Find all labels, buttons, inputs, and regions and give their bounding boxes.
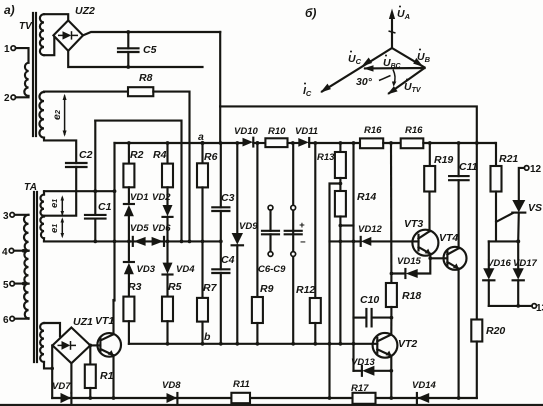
wire VT3 collector to R19 xyxy=(428,192,430,232)
node UZ1 right / VT1 base xyxy=(88,344,92,348)
svg-text:е2: е2 xyxy=(51,109,63,120)
svg-text:R11: R11 xyxy=(233,379,250,390)
node R12 bottom xyxy=(313,342,317,346)
wire VT3 emitter to VT4 base xyxy=(430,254,447,258)
node left vertical at e1 wire xyxy=(113,189,117,193)
TA primary winding section 5-6 xyxy=(24,284,28,319)
wire VD16-VS horizontal xyxy=(489,240,518,242)
wire e2 bottom to C2 xyxy=(44,138,76,163)
svg-text:R5: R5 xyxy=(168,281,182,293)
svg-text:С5: С5 xyxy=(143,44,157,56)
node R10 left xyxy=(256,141,260,145)
node x329.5 bottom xyxy=(328,396,332,400)
svg-text:R2: R2 xyxy=(130,149,144,161)
TA core xyxy=(33,192,35,362)
svg-text:VD15: VD15 xyxy=(397,256,421,267)
node VD9 bottom xyxy=(235,342,239,346)
svg-text:VТ2: VТ2 xyxy=(398,338,417,350)
TV upper secondary winding xyxy=(40,14,44,55)
wire UZ1 bottom corner down xyxy=(70,363,72,393)
e2 dimension arrow xyxy=(64,96,66,136)
node R13 top xyxy=(339,141,343,145)
svg-text:R16: R16 xyxy=(364,125,382,136)
node R18 chain top xyxy=(389,141,393,145)
node VD12 wire x353.5 xyxy=(352,240,356,244)
node R4 top xyxy=(166,141,170,145)
svg-text:2: 2 xyxy=(4,93,10,104)
svg-text:VТ3: VТ3 xyxy=(404,218,423,230)
svg-text:R7: R7 xyxy=(203,282,218,294)
svg-text:R8: R8 xyxy=(139,72,153,84)
node C7 bottom xyxy=(291,342,295,346)
vector UA xyxy=(391,14,393,48)
wire VT1 collector up long left vertical xyxy=(112,300,114,334)
winding e1 lower xyxy=(40,217,44,239)
svg-text:VD13: VD13 xyxy=(351,357,375,368)
svg-text:30°: 30° xyxy=(356,76,373,88)
wire VT2 emitter down xyxy=(390,356,392,398)
node x340.4 bus b xyxy=(339,342,343,346)
svg-text:R10: R10 xyxy=(268,126,286,137)
node R18 bottom / C10 / VT2 collector xyxy=(390,316,394,320)
node VT2 emitter bottom xyxy=(389,396,393,400)
svg-text:VD1: VD1 xyxy=(130,192,148,203)
node left vertical on VD5 bus xyxy=(113,240,117,244)
node C4 bottom xyxy=(219,342,223,346)
svg-text:б): б) xyxy=(305,6,316,20)
svg-text:VТ4: VТ4 xyxy=(439,232,458,244)
wire long horizontal y106 to right side xyxy=(220,106,477,143)
node x181.5 on VD5 bus xyxy=(180,240,184,244)
node x329.5 bus b xyxy=(328,342,332,346)
svg-text:VТ1: VТ1 xyxy=(95,315,114,327)
chain R9: from bus a down xyxy=(256,141,260,145)
wire UZ1 to VT1 base xyxy=(90,344,100,346)
svg-text:VD3: VD3 xyxy=(137,264,156,275)
wire x353.5 vertical bus a to VD13 wire xyxy=(352,143,354,371)
svg-text:VD11: VD11 xyxy=(295,126,318,137)
wire winding bottom to UZ1 left leg xyxy=(44,362,52,368)
node VD1 chain on VD5 bus xyxy=(127,240,131,244)
chain with capacitor C7 (right of group) xyxy=(292,143,294,344)
svg-text:а): а) xyxy=(4,3,15,17)
svg-text:VD6: VD6 xyxy=(152,223,171,234)
wire UZ1 left corner down to bottom wire xyxy=(51,345,53,398)
svg-text:−: − xyxy=(300,237,306,248)
node x353.5 bus b xyxy=(352,342,356,346)
svg-text:R6: R6 xyxy=(204,151,218,163)
node C3-C4 on VD5 bus xyxy=(219,240,223,244)
angle 30 arc xyxy=(393,70,395,84)
svg-text:1: 1 xyxy=(4,44,10,55)
winding e2 xyxy=(39,92,44,138)
svg-text:R1: R1 xyxy=(100,370,114,382)
node x353.5 top xyxy=(352,141,356,145)
node R10 right xyxy=(291,141,295,145)
node VT1 emitter bottom xyxy=(112,396,116,400)
node R19 top xyxy=(428,141,432,145)
TA primary winding section 4-5 xyxy=(24,251,28,284)
node VD12 wire x340 xyxy=(339,240,343,244)
svg-text:R3: R3 xyxy=(128,281,142,293)
node C3 top xyxy=(219,141,223,145)
wire e2 top to R8 xyxy=(44,91,128,93)
svg-text:R12: R12 xyxy=(296,284,315,296)
svg-text:4: 4 xyxy=(2,247,8,258)
svg-text:VD4: VD4 xyxy=(176,264,195,275)
phasor diagram xyxy=(303,6,431,99)
svg-text:UZ1: UZ1 xyxy=(73,316,93,328)
wire VD12 line xyxy=(330,240,361,242)
chain R20 xyxy=(476,143,478,320)
wire VD5 bus xyxy=(44,240,221,242)
node C1 bottom xyxy=(93,240,97,244)
svg-text:VD16: VD16 xyxy=(487,258,511,269)
wire bus b xyxy=(129,343,377,345)
svg-text:С2: С2 xyxy=(79,149,93,161)
wire VT1 emitter down xyxy=(112,355,114,398)
wire corner x95.3 y120.6 xyxy=(95,121,181,242)
svg-text:R19: R19 xyxy=(434,154,453,166)
svg-text:R21: R21 xyxy=(499,153,518,165)
node VT3 emitter / VD15 xyxy=(428,256,432,260)
node R20 chain top xyxy=(475,141,479,145)
svg-text:С3: С3 xyxy=(221,192,235,204)
VS gate wire xyxy=(496,213,512,222)
vector UTV xyxy=(389,68,425,93)
node R6-R7 on VD5 bus xyxy=(201,240,205,244)
wire bus a xyxy=(115,142,243,144)
TA primary winding section 3-4 xyxy=(24,215,29,251)
svg-text:ТV: ТV xyxy=(19,21,33,32)
svg-text:С11: С11 xyxy=(459,161,478,173)
node x189.5 on VD5 bus xyxy=(188,240,192,244)
node R14 bottom xyxy=(339,224,343,228)
wire winding top to UZ1 xyxy=(44,323,60,336)
wire e1b bottom to VD5 bus xyxy=(43,238,45,241)
svg-text:С4: С4 xyxy=(221,254,235,266)
e1 lower dimension arrow xyxy=(61,219,63,237)
wire e1 top tap xyxy=(44,190,115,192)
wire C11 to VT4 collector xyxy=(458,180,460,248)
wire branch from R13-R14 junction to x329.5 xyxy=(330,184,341,399)
svg-text:R16: R16 xyxy=(405,125,423,136)
svg-text:R20: R20 xyxy=(486,325,505,337)
svg-text:+: + xyxy=(299,220,305,231)
wire winding to UZ2 top xyxy=(44,14,68,20)
svg-text:b: b xyxy=(204,331,211,343)
svg-text:12: 12 xyxy=(530,164,542,175)
vector UBC xyxy=(365,67,425,70)
node R12 top xyxy=(313,141,317,145)
svg-text:R13: R13 xyxy=(317,152,335,163)
TV primary winding xyxy=(24,63,28,96)
svg-text:R14: R14 xyxy=(357,191,376,203)
wire C2 bottom to e1 mid tap xyxy=(44,167,76,216)
node VD9 top xyxy=(235,141,239,145)
capacitor C6 (left of group C6-C9) xyxy=(268,205,273,210)
node R1 bottom xyxy=(88,396,92,400)
node R7 bottom xyxy=(201,342,205,346)
node R2 top xyxy=(127,141,131,145)
wire UZ2 bottom output xyxy=(68,51,202,67)
node R13-R14 junction xyxy=(339,182,343,186)
wire UZ2 right output top bus xyxy=(83,32,220,35)
svg-text:R4: R4 xyxy=(153,149,167,161)
node VT2 emitter / VD13 wire xyxy=(389,369,393,373)
svg-text:VD7: VD7 xyxy=(52,381,71,392)
svg-text:VD12: VD12 xyxy=(358,224,382,235)
wire R14 bottom branch to x353.5 xyxy=(340,224,353,226)
wire VT2 collector up to R18 bottom xyxy=(390,318,392,335)
node VD2 chain on VD5 bus xyxy=(166,240,170,244)
svg-text:VD5: VD5 xyxy=(130,223,149,234)
svg-text:С10: С10 xyxy=(360,294,379,306)
svg-text:VD10: VD10 xyxy=(234,126,258,137)
svg-text:3: 3 xyxy=(3,211,9,222)
node VS cathode xyxy=(516,239,520,243)
wire VT4 emitter down to bottom wire xyxy=(458,269,460,398)
svg-text:С6-С9: С6-С9 xyxy=(258,264,286,275)
svg-text:5: 5 xyxy=(3,280,9,291)
svg-text:UZ2: UZ2 xyxy=(75,5,95,17)
svg-text:С1: С1 xyxy=(98,201,112,213)
node C11 top xyxy=(457,141,461,145)
wire vertical x220 from top bus down to bus a xyxy=(219,32,221,143)
svg-text:VD14: VD14 xyxy=(412,380,436,391)
svg-text:R9: R9 xyxy=(260,283,274,295)
TA lower winding to UZ1 xyxy=(40,323,44,362)
svg-text:R18: R18 xyxy=(402,290,421,302)
node VD15 left / R18 xyxy=(390,272,394,276)
winding e1 upper xyxy=(40,195,44,216)
chain R18 from bus a xyxy=(390,143,393,283)
TV core xyxy=(32,13,34,136)
wire bottom rail xyxy=(52,397,477,399)
wire x95.3 down through C1 xyxy=(94,121,96,215)
wire R8 to vertical x189.5 xyxy=(153,92,189,242)
svg-text:VD9: VD9 xyxy=(239,221,258,232)
vector UC and IC xyxy=(322,48,392,92)
node C5 top xyxy=(126,30,130,34)
node e1 top junction xyxy=(93,189,97,193)
svg-text:6: 6 xyxy=(3,315,9,326)
wire e1a top stub xyxy=(43,191,45,194)
e1 upper dimension arrow xyxy=(61,197,63,215)
node VT4 emitter bottom xyxy=(457,396,461,400)
svg-text:VD8: VD8 xyxy=(162,380,181,391)
node R5 bottom xyxy=(166,342,170,346)
svg-text:VS: VS xyxy=(528,202,542,214)
node C5 bottom xyxy=(126,65,130,69)
node R9 bottom xyxy=(256,342,260,346)
vector UB xyxy=(392,48,425,67)
wire winding to UZ2 left xyxy=(44,35,54,55)
border line bottom (scan edge) xyxy=(0,404,543,406)
svg-text:VD17: VD17 xyxy=(513,258,537,269)
